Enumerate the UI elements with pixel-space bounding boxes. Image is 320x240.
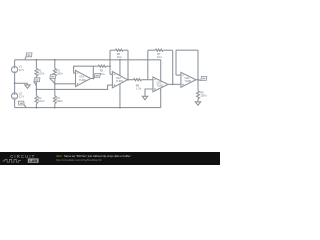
wire OA4 out down to load resistor R9 [197,80,199,91]
svg-text:100 k: 100 k [57,99,64,103]
ground G3 [195,102,200,105]
svg-text:LAB: LAB [29,158,37,163]
net flag OA1 output [93,77,94,78]
svg-text:1.0 k: 1.0 k [136,87,142,91]
op-amp OA4 [181,72,196,87]
OA2 V- pin to bottom rail [119,84,121,108]
svg-text:100 k: 100 k [57,72,64,76]
OA3 feedback left wire [147,50,149,79]
OA3 - input stub [148,79,153,81]
svg-text:12 V: 12 V [19,68,25,72]
resistor R5 [98,65,106,67]
wire node A to OA2 + input [36,85,112,89]
OA2 V+ pin to top rail [119,60,121,76]
OA2 feedback top wire right part [123,49,128,51]
divider column 1 bottom wire [35,104,37,108]
resistor R4 [53,96,56,104]
svg-text:TL081: TL081 [185,80,192,83]
OA3 feedback top wire left part [148,49,156,51]
resistor R2 [35,96,38,104]
OA4 feedback left wire [175,50,177,75]
svg-text:100 k: 100 k [38,99,45,103]
divider column 2 bottom wire [54,104,56,108]
CircuitLab logo waveform squiggle [3,159,21,162]
svg-text:TL081: TL081 [79,79,86,82]
OA4 output stub [196,79,198,81]
wire V2 top [14,83,16,93]
OA3 V- pin to bottom rail [160,88,162,108]
net flag node B [50,78,55,83]
op-amp OA3 [153,77,168,92]
wire V1 top to rail [14,60,16,67]
divider column 1 mid wire [35,76,37,96]
svg-text:TL081: TL081 [157,85,164,88]
svg-text:10 k: 10 k [100,72,106,76]
wire OA2 out to R8 [128,79,134,81]
op-amp OA1 [76,70,91,86]
OA3 V+ pin to top rail [160,60,162,81]
wire OA3 out to OA4 + input [173,83,181,85]
wire node B to OA1 + input [55,83,76,85]
svg-text:TL081: TL081 [116,80,123,83]
OA1 output stub [91,78,94,80]
ground G1 [25,85,30,88]
net flag out [198,79,201,82]
top supply rail [15,59,161,61]
feedback resistor R7 [155,49,163,51]
OA2 feedback left wire [109,50,111,74]
bottom supply rail [15,107,161,109]
OA2 - input stub [110,73,112,75]
OA2 output stub [127,79,130,81]
wire R9 to ground G3 [197,99,199,102]
footer bar [0,152,220,165]
divider column 1 top wire [35,60,37,68]
wire V2 bottom to rail [14,99,16,108]
svg-text:12 V: 12 V [19,95,25,99]
OA3 output stub [168,83,173,85]
OA4 - input stub [176,74,181,76]
op-amp OA2 [112,72,127,88]
net flag VEE on bottom rail [24,105,26,108]
wire mid junction to ground G1 [15,82,28,84]
OA3 feedback right wire [172,50,174,84]
OA1 feedback wire loop [74,66,94,78]
ground G1 stem [27,83,29,85]
svg-text:r2b2 : Same as "93V Eu" just w: r2b2 : Same as "93V Eu" just without Op-… [56,154,131,158]
ground G2 [142,96,147,99]
svg-text:10 k: 10 k [117,55,123,59]
wire R5 to OA2 - node [106,65,110,67]
net flag VCC on top rail [25,57,26,60]
OA2 feedback right wire [127,50,129,79]
resistor R1 [35,68,38,76]
voltage source V2 [12,93,18,99]
OA4 feedback top wire [176,49,198,51]
svg-text:http://circuitlab.com/c/hy25xw: http://circuitlab.com/c/hy25xw9bqv72 [56,158,102,162]
net flag node A [34,82,37,86]
svg-text:100 k: 100 k [38,72,45,76]
OA3 + input wire to ground [145,89,153,96]
OA4 feedback right wire [197,50,199,80]
voltage source V1 [12,67,18,73]
divider column 2 top wire [54,60,56,68]
svg-text:10 k: 10 k [157,55,163,59]
OA3 feedback top wire right part [163,49,172,51]
OA1 - input stub [74,72,76,74]
feedback resistor R6 [115,49,123,51]
CircuitLab logo LAB badge [28,158,39,162]
wire OA1 feedback node to R5 [93,65,98,67]
wire V1 bottom to mid junction [14,73,16,84]
resistor R3 [53,68,56,76]
resistor R8 [134,79,142,81]
wire R8 to OA3 - node [142,79,148,81]
OA2 feedback top wire left part [110,49,115,51]
resistor R9 [197,91,200,99]
divider column 2 mid wire [54,76,56,96]
svg-text:100 k: 100 k [200,94,207,98]
